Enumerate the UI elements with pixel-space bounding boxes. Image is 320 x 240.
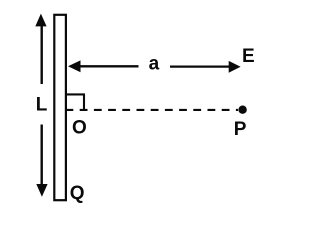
length arrow L (double-headed vertical arrow) bbox=[35, 14, 47, 197]
point P (filled dot) bbox=[238, 106, 246, 114]
svg-text:L: L bbox=[36, 94, 48, 115]
distance arrow a (left half, arrowhead at rod) bbox=[68, 60, 139, 72]
rod (charged rod rectangle) bbox=[54, 15, 66, 200]
dashed line O to P bbox=[66, 109, 239, 111]
field arrow E (right half, arrowhead pointing right) bbox=[170, 61, 241, 73]
right-angle marker at O bbox=[66, 94, 84, 110]
svg-text:O: O bbox=[72, 117, 87, 138]
svg-text:P: P bbox=[234, 119, 247, 140]
svg-text:a: a bbox=[149, 53, 160, 74]
svg-text:Q: Q bbox=[70, 183, 85, 204]
svg-text:E: E bbox=[242, 46, 255, 67]
